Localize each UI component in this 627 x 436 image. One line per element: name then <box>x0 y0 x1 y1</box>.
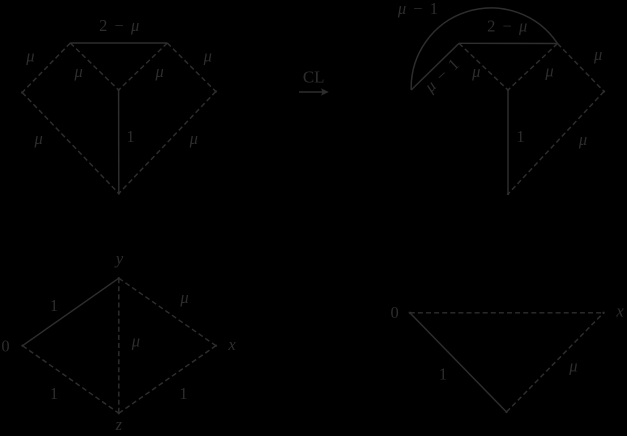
wire solid mu-1 edge <box>411 43 459 90</box>
svg-text:1: 1 <box>50 384 58 403</box>
svg-text:x: x <box>615 302 624 321</box>
svg-text:μ: μ <box>203 47 212 66</box>
svg-text:1: 1 <box>439 365 447 384</box>
svg-text:1: 1 <box>50 296 58 315</box>
wire dashed right vertex to bottom <box>508 92 604 195</box>
svg-text:μ: μ <box>74 62 83 81</box>
svg-text:1: 1 <box>516 127 524 146</box>
wire solid 0 to bottom <box>410 313 507 412</box>
wire dashed top-right to right vertex <box>167 43 216 92</box>
node dots TL <box>21 89 605 415</box>
svg-text:μ: μ <box>155 62 164 81</box>
wire dashed y to z <box>118 278 120 413</box>
wire dashed top-left to center <box>70 43 118 90</box>
svg-text:μ: μ <box>471 62 480 81</box>
svg-text:2 − μ: 2 − μ <box>487 17 527 36</box>
svg-text:CL: CL <box>303 68 325 87</box>
wire dashed top-right to right vertex <box>558 44 605 92</box>
svg-text:2 − μ: 2 − μ <box>99 16 139 35</box>
svg-text:0: 0 <box>1 337 9 356</box>
wire dashed top-left to center <box>459 43 508 90</box>
arc mu-1 loop <box>411 8 557 90</box>
svg-text:μ: μ <box>544 61 553 80</box>
svg-text:0: 0 <box>390 303 398 322</box>
wire dashed bottom to x <box>507 313 604 412</box>
wire center to bottom solid <box>507 90 509 194</box>
wire dashed right vertex to bottom <box>119 92 216 194</box>
svg-text:μ: μ <box>131 332 140 351</box>
node dots BL <box>21 345 23 347</box>
svg-text:μ: μ <box>179 288 188 307</box>
node dots TR <box>603 90 605 92</box>
wire solid 0 to y <box>23 278 119 346</box>
wire center to bottom solid <box>118 90 120 194</box>
wire dashed y to x <box>119 278 216 346</box>
wire dashed 0 to x <box>410 312 604 314</box>
svg-text:z: z <box>115 415 123 434</box>
svg-text:x: x <box>227 335 236 354</box>
wire dashed top-left to left vertex <box>22 43 70 93</box>
svg-text:y: y <box>114 249 124 268</box>
svg-text:1: 1 <box>126 127 134 146</box>
svg-text:μ: μ <box>189 129 198 148</box>
wire dashed top-right to center <box>508 44 558 91</box>
svg-text:μ: μ <box>568 356 577 375</box>
svg-text:μ: μ <box>578 130 587 149</box>
svg-text:1: 1 <box>179 384 187 403</box>
wire arrow shaft <box>299 91 326 93</box>
wire dashed z to x <box>119 346 216 414</box>
node dots BR <box>409 312 411 314</box>
svg-text:μ: μ <box>593 45 602 64</box>
wire dashed 0 to z <box>23 346 119 414</box>
wire top edge solid <box>70 42 167 44</box>
svg-text:μ: μ <box>34 129 43 148</box>
wire top edge solid <box>459 42 558 44</box>
svg-text:μ − 1: μ − 1 <box>397 0 438 18</box>
svg-text:μ: μ <box>25 47 34 66</box>
arrowhead <box>321 88 329 96</box>
wire dashed top-right to center <box>119 43 168 90</box>
wire dashed left vertex to bottom <box>22 93 119 194</box>
